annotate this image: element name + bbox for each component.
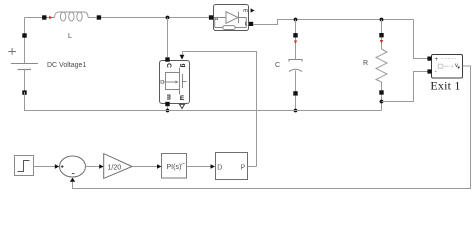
- wire top rail: [25, 17, 43, 19]
- voltage measurement block Exit 1: [427, 55, 462, 79]
- wire drain riser: [167, 18, 169, 58]
- svg-text:P: P: [241, 164, 246, 171]
- arrow into sum: [55, 164, 60, 169]
- wire resistor tap to Exit minus: [382, 72, 428, 102]
- m output arrow of switch: [180, 104, 185, 108]
- wire Exit output feedback: [73, 66, 471, 189]
- svg-text:E: E: [180, 95, 185, 102]
- wire bottom rail: [25, 92, 382, 111]
- PID controller block PI(s): [162, 154, 187, 179]
- red direction mark resistor: [380, 40, 384, 43]
- wire PWM output: [248, 166, 257, 168]
- svg-text:PI(s): PI(s): [167, 164, 182, 171]
- svg-text:v: v: [455, 63, 458, 69]
- wire source to rail: [167, 106, 169, 111]
- wire diode output to right rail: [253, 20, 414, 25]
- wire left vertical to battery: [24, 18, 26, 37]
- svg-text:C: C: [165, 63, 172, 68]
- node junction capacitor bottom: [294, 109, 298, 113]
- IGBT switch block: [160, 57, 190, 106]
- wire PI to PWM: [187, 166, 212, 168]
- svg-text:-: -: [435, 69, 437, 75]
- svg-text:Exit 1: Exit 1: [430, 79, 460, 93]
- svg-text:m: m: [165, 94, 172, 100]
- wire drop to Exit plus: [414, 20, 428, 59]
- arrow into PWM: [211, 164, 216, 169]
- node junction resistor bottom tap: [380, 100, 384, 104]
- red direction mark capacitor: [294, 41, 298, 44]
- node junction top of MOSFET: [166, 16, 170, 20]
- svg-text:C: C: [275, 62, 280, 69]
- arrow into gain: [99, 164, 104, 169]
- svg-text:+: +: [450, 65, 454, 71]
- PWM generator block D/P: [216, 153, 248, 180]
- wire sum to gain: [86, 166, 101, 168]
- svg-text:m: m: [243, 8, 248, 14]
- wire step to sum: [34, 166, 57, 168]
- diode block D1: [209, 5, 253, 31]
- node junction capacitor top: [294, 18, 298, 22]
- wire gate signal: [183, 52, 257, 167]
- svg-text:+: +: [435, 57, 439, 63]
- sum block: [60, 156, 86, 177]
- arrow into PI: [157, 164, 162, 169]
- svg-text:DC Voltage1: DC Voltage1: [47, 62, 86, 69]
- m output arrow of diode: [251, 8, 255, 12]
- svg-text:1/20: 1/20: [108, 164, 122, 171]
- node junction source/rail: [166, 109, 170, 113]
- step block: [15, 156, 34, 176]
- resistor R: [376, 20, 387, 111]
- svg-text:g: g: [180, 64, 187, 68]
- svg-text:R: R: [363, 60, 368, 67]
- red direction mark inductor: [49, 16, 52, 19]
- svg-text:D: D: [217, 164, 222, 171]
- gain block 1/20: [104, 154, 132, 179]
- inductor L: [42, 12, 101, 21]
- capacitor C: [289, 20, 302, 111]
- DC voltage source DC Voltage1: [8, 33, 38, 95]
- arrow feedback into sum bottom: [70, 178, 75, 182]
- node junction resistor top: [380, 18, 384, 22]
- svg-text:L: L: [68, 33, 72, 40]
- wire gain to PI: [132, 166, 158, 168]
- gate input arrow: [180, 55, 185, 60]
